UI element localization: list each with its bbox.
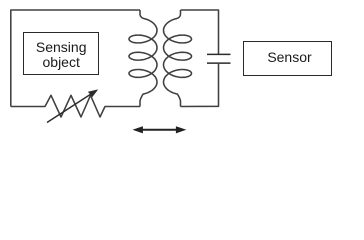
sensor box	[243, 41, 332, 76]
sensing object box	[23, 32, 99, 75]
inductor L2 (secondary coil)	[164, 10, 192, 107]
wire: left tank loop (top and left sides)	[11, 10, 140, 107]
inductor L1 (primary coil)	[129, 10, 157, 107]
resistor R (variable, in bottom wire)	[11, 95, 140, 117]
capacitor C (two plates)	[207, 54, 231, 63]
wire: secondary loop top	[181, 10, 219, 54]
wire: secondary loop right and bottom	[181, 64, 219, 107]
circuit schematic svg	[0, 0, 364, 149]
arrowhead of variable-resistor arrow	[88, 89, 98, 97]
arrow through resistor (variable symbol)	[47, 92, 94, 122]
motion arrow (double-headed) under transformer	[140, 129, 179, 131]
